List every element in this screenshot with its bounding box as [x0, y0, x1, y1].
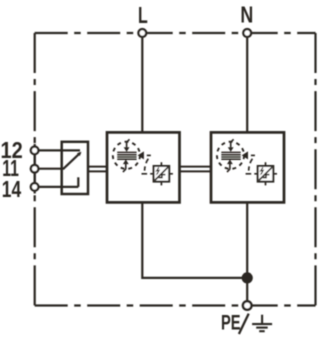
svg-text:N: N — [240, 2, 253, 28]
svg-text:L: L — [138, 3, 148, 29]
svg-text:PE: PE — [221, 311, 241, 334]
svg-text:14: 14 — [2, 177, 22, 203]
